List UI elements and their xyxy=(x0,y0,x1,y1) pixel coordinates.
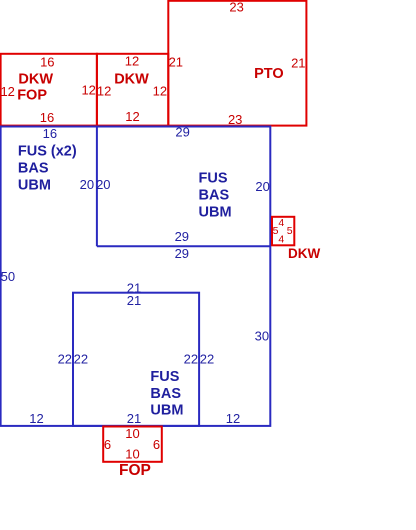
svg-text:DKW: DKW xyxy=(18,72,53,88)
svg-text:5: 5 xyxy=(287,225,293,237)
svg-text:6: 6 xyxy=(153,437,160,452)
svg-text:29: 29 xyxy=(175,246,189,261)
svg-text:FOP: FOP xyxy=(17,88,47,104)
svg-text:BAS: BAS xyxy=(199,188,230,204)
svg-text:UBM: UBM xyxy=(18,178,51,194)
svg-text:FUS: FUS xyxy=(199,171,228,187)
svg-text:16: 16 xyxy=(40,54,54,69)
svg-text:4: 4 xyxy=(278,217,284,229)
box inner FUS/BAS/UBM xyxy=(73,293,199,426)
svg-text:20: 20 xyxy=(96,177,110,192)
box PTO xyxy=(168,1,306,126)
svg-text:22: 22 xyxy=(184,351,198,366)
svg-text:21: 21 xyxy=(127,411,141,426)
svg-text:12: 12 xyxy=(226,411,240,426)
svg-text:PTO: PTO xyxy=(254,66,284,82)
svg-text:FUS: FUS xyxy=(150,369,179,385)
svg-text:UBM: UBM xyxy=(199,205,232,221)
box small DKW xyxy=(272,217,294,246)
svg-text:22: 22 xyxy=(74,351,88,366)
svg-text:23: 23 xyxy=(228,112,242,127)
wire divider vertical x=96.9 xyxy=(96,127,98,247)
wire divider horizontal y=246.2 xyxy=(97,245,270,247)
svg-text:22: 22 xyxy=(58,351,72,366)
svg-text:20: 20 xyxy=(255,179,269,194)
svg-text:FOP: FOP xyxy=(119,462,151,479)
svg-text:UBM: UBM xyxy=(150,403,183,419)
svg-text:BAS: BAS xyxy=(18,161,49,177)
svg-text:6: 6 xyxy=(104,437,111,452)
svg-text:4: 4 xyxy=(278,233,284,245)
svg-text:21: 21 xyxy=(169,55,183,70)
svg-text:23: 23 xyxy=(229,0,243,15)
svg-text:12: 12 xyxy=(125,54,139,69)
svg-text:22: 22 xyxy=(200,351,214,366)
svg-text:BAS: BAS xyxy=(150,386,181,402)
svg-text:12: 12 xyxy=(0,84,14,99)
svg-text:50: 50 xyxy=(1,269,15,284)
svg-text:12: 12 xyxy=(81,83,95,98)
svg-text:16: 16 xyxy=(43,126,57,141)
svg-text:29: 29 xyxy=(175,229,189,244)
svg-text:DKW: DKW xyxy=(114,72,149,88)
svg-text:10: 10 xyxy=(125,446,139,461)
svg-text:21: 21 xyxy=(291,55,305,70)
svg-text:12: 12 xyxy=(153,83,167,98)
svg-text:21: 21 xyxy=(127,293,141,308)
svg-text:16: 16 xyxy=(40,110,54,125)
box DKW/FOP (top-left) xyxy=(1,54,97,126)
blue big polygon outline xyxy=(1,127,271,426)
svg-text:29: 29 xyxy=(175,125,189,140)
svg-text:DKW: DKW xyxy=(288,246,320,261)
box DKW (second) xyxy=(97,54,168,126)
svg-text:FUS (x2): FUS (x2) xyxy=(18,143,77,159)
svg-text:30: 30 xyxy=(255,328,269,343)
svg-text:10: 10 xyxy=(125,426,139,441)
svg-text:12: 12 xyxy=(97,83,111,98)
svg-text:12: 12 xyxy=(125,109,139,124)
svg-text:12: 12 xyxy=(29,411,43,426)
svg-text:20: 20 xyxy=(80,177,94,192)
box FOP (bottom) xyxy=(103,427,162,462)
